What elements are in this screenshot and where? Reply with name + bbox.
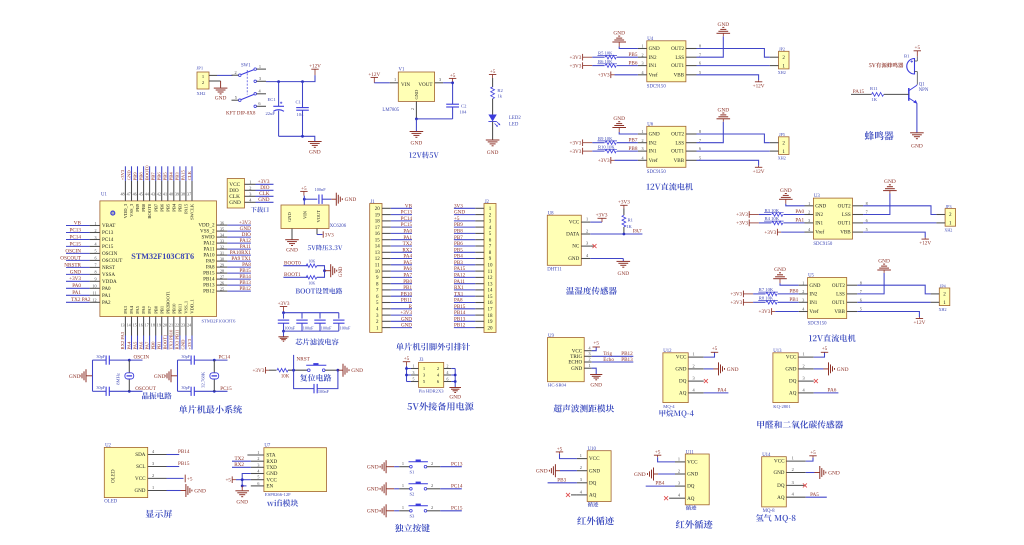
pin 31 PA10 [203, 250, 227, 258]
button S3 [409, 504, 428, 519]
svg-text:17: 17 [488, 308, 494, 313]
svg-text:AQ: AQ [679, 391, 687, 397]
wire / net label PB14 [167, 449, 190, 455]
svg-text:GND: GND [487, 150, 499, 156]
wire / net label OSCIN [65, 248, 89, 254]
svg-text:22uF: 22uF [266, 111, 276, 116]
wire [317, 266, 325, 271]
svg-text:PB3: PB3 [178, 203, 183, 212]
wire [317, 269, 326, 277]
svg-text:1: 1 [402, 505, 404, 510]
svg-text:PB8: PB8 [141, 203, 146, 212]
svg-text:S2: S2 [410, 491, 416, 496]
svg-text:18: 18 [375, 220, 381, 225]
label BOOT circuit [296, 288, 343, 294]
svg-text:25: 25 [220, 286, 224, 291]
svg-text:PB6: PB6 [159, 203, 164, 212]
svg-text:ESP8266-12F: ESP8266-12F [265, 492, 291, 497]
svg-text:3: 3 [693, 376, 695, 381]
svg-text:2: 2 [257, 456, 259, 461]
svg-text:24: 24 [187, 322, 191, 327]
capacitor 100nF [278, 313, 296, 331]
wire [269, 369, 277, 371]
connector JP3 XH2 [936, 204, 955, 233]
svg-text:OSCOUT: OSCOUT [60, 255, 82, 261]
svg-text:IN1: IN1 [649, 63, 657, 69]
driver U4 SDC9150 [638, 37, 701, 90]
svg-text:33: 33 [220, 238, 224, 243]
svg-text:3: 3 [94, 235, 96, 240]
svg-text:PB12: PB12 [454, 323, 466, 329]
svg-text:GND: GND [536, 469, 548, 475]
wire / net label PA11 [227, 244, 251, 250]
wire / net label PB10 [391, 291, 413, 297]
wire / net label PB13 [227, 280, 251, 286]
svg-text:35: 35 [220, 226, 224, 231]
wire [560, 470, 577, 472]
wire / net label PB6 [157, 166, 162, 181]
svg-text:TX2: TX2 [234, 456, 244, 462]
svg-text:SCL: SCL [136, 464, 145, 470]
svg-text:IN2: IN2 [815, 212, 823, 218]
svg-text:GND: GND [785, 367, 796, 373]
svg-text:+5: +5 [187, 476, 193, 482]
svg-text:GND: GND [236, 500, 248, 506]
svg-text:PA6: PA6 [141, 305, 146, 313]
svg-text:PA15: PA15 [184, 203, 189, 214]
svg-text:EN: EN [266, 484, 273, 490]
svg-text:3: 3 [642, 61, 644, 66]
svg-text:+12V: +12V [753, 83, 765, 89]
svg-text:VB: VB [405, 203, 413, 209]
svg-text:16: 16 [488, 301, 494, 306]
svg-text:43: 43 [151, 192, 155, 197]
wire / net label PA7 [144, 336, 149, 350]
svg-text:RXD: RXD [266, 459, 277, 465]
wire / net label PB15 [454, 304, 475, 310]
svg-text:11: 11 [93, 291, 97, 296]
wire / net label PB13 [454, 316, 475, 322]
svg-text:U1: U1 [101, 192, 107, 197]
svg-text:PA8: PA8 [454, 298, 463, 304]
svg-text:OSCOUT: OSCOUT [135, 386, 157, 392]
svg-text:+5: +5 [810, 450, 816, 456]
svg-text:OUT2: OUT2 [832, 283, 845, 289]
driver U3 SDC9150 [805, 194, 868, 247]
svg-text:Vref: Vref [649, 157, 658, 164]
svg-text:RX1: RX1 [454, 285, 464, 291]
pin 41 PB5 [163, 181, 170, 212]
svg-text:2: 2 [808, 210, 810, 215]
wire VCC to +5 [704, 352, 715, 357]
svg-text:PB15: PB15 [454, 304, 466, 310]
svg-text:PA6: PA6 [828, 388, 837, 394]
power +5 [711, 346, 718, 352]
svg-text:2: 2 [943, 292, 946, 298]
svg-text:47: 47 [127, 192, 131, 197]
svg-text:VSS_1: VSS_1 [184, 300, 189, 314]
wire OUT1 to JP5 [697, 150, 770, 152]
svg-text:17: 17 [375, 226, 381, 231]
wire / net label R [391, 304, 413, 310]
svg-text:18: 18 [488, 314, 494, 319]
wire / net label PA1 [66, 290, 90, 296]
net label BOOT0 [283, 261, 307, 267]
svg-text:LSS: LSS [675, 140, 684, 146]
net label PA15 [851, 89, 871, 95]
wire [394, 461, 410, 467]
svg-text:6: 6 [860, 297, 862, 302]
wire / net label PB7 [617, 137, 638, 143]
wire / net label PB5 [163, 166, 168, 181]
label buzzer [865, 131, 894, 140]
svg-text:DQ: DQ [679, 379, 687, 385]
wire / net label PA5 [132, 336, 137, 350]
label wifi module [267, 499, 298, 506]
svg-text:2: 2 [792, 467, 794, 472]
svg-text:VBB: VBB [840, 230, 851, 236]
svg-text:VSS_3: VSS_3 [129, 203, 134, 217]
svg-text:1: 1 [808, 201, 810, 206]
connector JP1 [197, 66, 218, 97]
svg-text:+12V: +12V [753, 169, 765, 175]
button S1 [409, 460, 428, 475]
svg-text:GND: GND [815, 203, 826, 209]
svg-text:+5: +5 [490, 69, 496, 75]
wire / net label PB8 [454, 229, 475, 235]
svg-text:32: 32 [220, 244, 224, 249]
svg-text:+5: +5 [301, 186, 307, 192]
svg-text:PB0: PB0 [151, 341, 156, 350]
wire / net label CLK [256, 191, 274, 197]
svg-text:+3V3: +3V3 [618, 200, 630, 206]
svg-text:1: 1 [589, 363, 591, 368]
button S2 [409, 482, 428, 497]
capacitor 30pF [96, 385, 109, 396]
svg-text:+5: +5 [712, 346, 718, 352]
wire LSS to ground [697, 122, 724, 143]
wire / net label PA12 [454, 273, 475, 279]
power +5 [654, 450, 661, 458]
connector J3 Pin HDR2X3 [411, 358, 451, 394]
svg-text:S1: S1 [410, 469, 416, 474]
svg-text:VCC: VCC [786, 355, 797, 361]
net label OSCIN [134, 355, 150, 361]
svg-text:VIN: VIN [303, 210, 308, 219]
wire VBB to +12V [697, 160, 759, 167]
svg-text:SDC9150: SDC9150 [647, 170, 667, 175]
wire / net label PB12 [454, 323, 475, 329]
wire JP1 pin1 to SW1 [217, 74, 233, 76]
svg-text:GND: GND [828, 470, 840, 476]
svg-text:PC15: PC15 [69, 241, 81, 247]
svg-text:+3V3: +3V3 [570, 55, 582, 61]
svg-text:GND: GND [351, 368, 363, 374]
svg-text:BOOT0: BOOT0 [147, 203, 152, 219]
svg-text:18: 18 [151, 322, 155, 327]
svg-text:30pF: 30pF [96, 385, 105, 390]
svg-text:VCC: VCC [135, 476, 146, 482]
wire / net label PB6 [454, 241, 475, 247]
wire / net label CLK [187, 166, 192, 181]
wire AQ / net label PA4 [704, 388, 729, 394]
svg-text:PB8: PB8 [629, 146, 638, 152]
ground [877, 259, 891, 273]
svg-text:R11: R11 [870, 86, 878, 91]
wire / net label PC13 [391, 210, 413, 216]
svg-text:46: 46 [133, 192, 137, 197]
svg-text:100nF: 100nF [303, 326, 314, 331]
svg-text:PB13: PB13 [454, 316, 466, 322]
svg-text:PB10: PB10 [401, 291, 413, 297]
svg-text:JP1: JP1 [197, 66, 204, 71]
svg-text:5: 5 [257, 475, 259, 480]
ground [325, 264, 344, 277]
power +12V [919, 239, 931, 247]
net label OSCOUT [135, 386, 157, 392]
wire / net label TX3 PB10 [169, 329, 174, 349]
svg-text:4: 4 [642, 155, 644, 160]
wire VCC [590, 218, 602, 222]
svg-text:2: 2 [94, 228, 96, 233]
svg-text:GND: GND [717, 107, 729, 113]
wire [615, 74, 638, 76]
wire [759, 222, 771, 224]
label crystal circuit [142, 392, 172, 399]
svg-text:Echo: Echo [603, 357, 614, 363]
svg-text:3: 3 [413, 371, 415, 375]
ground [69, 369, 93, 382]
svg-text:B1: B1 [904, 54, 910, 59]
svg-text:PB14: PB14 [178, 449, 190, 455]
wire / net label GND [227, 226, 251, 232]
wire SW1 pin3 to +12V rail [266, 75, 315, 82]
svg-text:PA5: PA5 [135, 305, 140, 313]
wire to ground [324, 270, 327, 272]
power +3V3 [598, 72, 615, 79]
wire / net label PA8 [454, 298, 475, 304]
svg-text:DQ: DQ [589, 480, 597, 486]
svg-text:+3V3: +3V3 [598, 158, 610, 164]
wire bottom rail [282, 330, 339, 337]
power +3V3 [618, 200, 630, 209]
buzzer B1 [869, 54, 917, 85]
svg-text:RX2 PA3: RX2 PA3 [120, 331, 125, 349]
svg-text:17: 17 [145, 322, 149, 327]
wire / net label TX2 [391, 241, 413, 247]
wire crystal loop [93, 359, 143, 393]
wire / net label VB [66, 220, 90, 226]
svg-text:PA7: PA7 [147, 305, 152, 313]
svg-text:4: 4 [94, 242, 96, 247]
svg-text:GND: GND [774, 267, 786, 273]
wire / net label +3V3 [120, 166, 125, 181]
svg-text:2: 2 [782, 140, 785, 146]
svg-text:DATA: DATA [566, 232, 579, 238]
svg-text:GND: GND [345, 197, 357, 203]
svg-text:PB5: PB5 [454, 247, 463, 253]
power +12V [753, 82, 765, 90]
svg-text:14: 14 [375, 245, 381, 250]
svg-text:VBAT: VBAT [102, 223, 116, 229]
svg-text:PB9: PB9 [132, 172, 137, 181]
svg-text:OUT1: OUT1 [832, 300, 845, 306]
power +3V3 [252, 367, 269, 374]
svg-text:PA5: PA5 [810, 492, 819, 498]
sensor U10 [577, 447, 611, 507]
svg-text:CLK: CLK [187, 170, 192, 180]
power +3V3 [736, 211, 759, 218]
wire VCC to +5 [167, 477, 184, 479]
wire / net label PB5 [454, 247, 475, 253]
svg-text:VCC: VCC [687, 460, 698, 466]
svg-text:13: 13 [121, 322, 125, 327]
svg-text:2: 2 [580, 465, 582, 470]
crystal 8MHz [116, 360, 134, 391]
power +5 [489, 69, 496, 78]
svg-text:JP5: JP5 [779, 132, 785, 137]
resistor R5 10K [598, 51, 618, 60]
switch SW1 KF7 DIP-8X8 [226, 63, 266, 116]
svg-text:19: 19 [375, 213, 381, 218]
power +5 [300, 186, 307, 196]
svg-text:Vref: Vref [815, 229, 824, 236]
pin 21 PB10 [169, 303, 176, 336]
svg-text:VCC: VCC [266, 477, 277, 483]
svg-text:+3V3: +3V3 [730, 300, 742, 306]
wire / net label +3V3 [227, 220, 251, 226]
svg-text:NRST: NRST [102, 265, 116, 271]
svg-text:20: 20 [163, 322, 167, 327]
svg-text:3: 3 [589, 351, 591, 356]
svg-text:30pF: 30pF [181, 354, 190, 359]
no-connect X [664, 496, 675, 500]
svg-text:3: 3 [803, 376, 805, 381]
svg-text:PC14: PC14 [102, 237, 114, 243]
svg-text:4: 4 [803, 387, 806, 392]
svg-text:PB11: PB11 [401, 298, 413, 304]
pin 26 PB13 [203, 280, 227, 288]
svg-text:8MHz: 8MHz [116, 373, 121, 385]
svg-text:GND: GND [154, 374, 166, 380]
wire / net label RX2 [391, 247, 413, 253]
wire [615, 159, 638, 161]
svg-text:7: 7 [699, 138, 701, 143]
svg-text:+12V: +12V [913, 320, 925, 326]
svg-text:3V3: 3V3 [454, 203, 463, 209]
svg-text:14: 14 [127, 322, 131, 327]
ground [410, 132, 424, 147]
svg-text:1: 1 [943, 300, 946, 306]
svg-text:NRSTR: NRSTR [64, 262, 81, 268]
svg-text:22: 22 [175, 322, 179, 327]
wire / net label DIO [227, 232, 251, 238]
wire LSS to ground [857, 273, 884, 294]
capacitor 100nF [296, 313, 314, 331]
wire AQ / net label PA6 [814, 388, 839, 394]
svg-text:7: 7 [860, 289, 862, 294]
svg-text:2: 2 [410, 108, 415, 110]
svg-text:+3V3: +3V3 [730, 292, 742, 298]
svg-text:45: 45 [139, 192, 143, 197]
svg-text:GND: GND [454, 210, 465, 216]
pin 16 PA6 [139, 305, 146, 335]
wire VBB to +12V [857, 312, 919, 319]
svg-text:VCC: VCC [676, 355, 687, 361]
wire / net label +5 [454, 216, 475, 222]
ground [367, 504, 394, 517]
svg-text:1: 1 [94, 221, 96, 226]
svg-text:PB0: PB0 [403, 279, 412, 285]
pin 28 PB15 [203, 268, 227, 276]
svg-text:3: 3 [257, 462, 259, 467]
connector JP5 XH2 [770, 132, 789, 161]
svg-text:2: 2 [642, 52, 644, 57]
wire / net label PB5 [617, 52, 638, 58]
svg-text:+3V3: +3V3 [69, 276, 81, 282]
svg-text:5: 5 [413, 378, 415, 382]
wire [325, 369, 339, 372]
svg-text:GND: GND [449, 395, 461, 401]
svg-text:+5: +5 [915, 45, 921, 51]
capacitor C2 104 [446, 103, 467, 119]
ground [285, 240, 299, 254]
resistor R10 10K [598, 144, 618, 153]
svg-text:1: 1 [402, 483, 404, 488]
power +3V3 [759, 308, 776, 315]
svg-text:48: 48 [121, 192, 125, 197]
no-connect X [704, 379, 708, 383]
junction [277, 80, 304, 83]
svg-text:7: 7 [699, 52, 701, 57]
wire / net label PA7 [391, 273, 413, 279]
svg-text:2: 2 [431, 505, 433, 510]
svg-text:PB7: PB7 [153, 203, 158, 212]
svg-text:2: 2 [949, 212, 952, 218]
svg-text:3V3: 3V3 [325, 232, 334, 238]
power +5 [185, 475, 193, 483]
resistor R8 10K [758, 296, 778, 305]
ground [590, 375, 602, 389]
wire / net label PB6 [617, 60, 638, 66]
pin 11 PA1 [90, 291, 111, 299]
svg-text:PC14: PC14 [451, 484, 463, 490]
wire / net label PB12 [227, 286, 251, 292]
wire / net label GND [391, 316, 413, 322]
wire / net label OSCOUT [60, 255, 89, 261]
wire [775, 311, 798, 313]
svg-text:VBB: VBB [674, 72, 685, 78]
svg-text:BOOT0: BOOT0 [144, 165, 149, 181]
wire OUT2 to JP5 [697, 134, 770, 143]
wire gnd rail [415, 118, 453, 132]
svg-text:PC15: PC15 [401, 222, 413, 228]
svg-text:4: 4 [802, 307, 804, 312]
svg-text:GND: GND [613, 31, 625, 37]
svg-text:+12V: +12V [919, 241, 931, 247]
svg-text:31: 31 [220, 250, 224, 255]
svg-text:PC13: PC13 [401, 210, 413, 216]
wire / net label PA0 [66, 283, 90, 289]
svg-text:PC14: PC14 [401, 216, 413, 222]
svg-text:GND: GND [649, 46, 660, 52]
svg-text:100nF: 100nF [315, 187, 327, 192]
svg-text:GND: GND [287, 212, 292, 222]
power +3V3 [730, 291, 753, 298]
label 5V backup power [407, 402, 473, 411]
wire LSS to ground [863, 194, 890, 215]
wire [619, 132, 638, 134]
